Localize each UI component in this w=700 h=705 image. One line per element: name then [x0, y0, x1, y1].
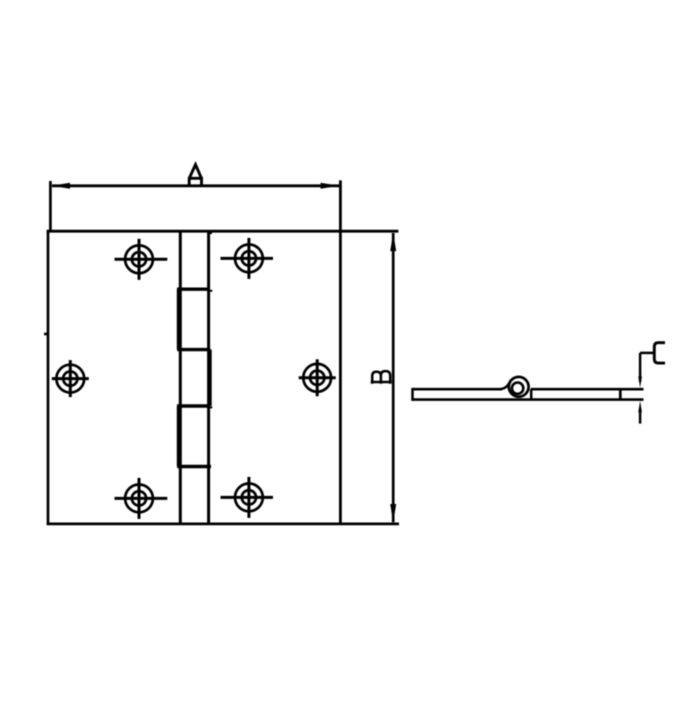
side view leaf bottom edge — [413, 398, 644, 401]
screw hole top-left — [115, 239, 168, 280]
knuckle divider 1 right tick — [208, 290, 213, 292]
hinge leaf outline top edge + B top extension — [47, 230, 399, 233]
hinge pin strip left line — [179, 231, 182, 524]
dimension A arrow right — [321, 183, 339, 189]
knuckle divider 3 — [177, 404, 209, 407]
side view fillet into knuckle — [501, 380, 511, 389]
dimension A line — [52, 184, 339, 187]
hinge leaf outline left edge — [47, 231, 50, 524]
hinge leaf outline right edge + B extension above — [339, 180, 342, 524]
side view knuckle right seam — [530, 389, 533, 399]
dimension C lower arrow — [638, 401, 642, 413]
label B (rotated) — [371, 371, 392, 384]
dimension B line — [392, 233, 395, 522]
side view leaf top edge right part — [531, 388, 644, 391]
knuckle top tick — [209, 232, 212, 234]
knuckle box 4 thick left edge — [177, 406, 180, 467]
label A — [188, 165, 203, 186]
side view leaf top edge left part — [413, 388, 503, 391]
left edge tick — [44, 333, 49, 336]
label C — [654, 343, 665, 363]
knuckle divider 1 — [177, 288, 209, 291]
dimension C upper line — [639, 353, 642, 382]
dimension C leader — [640, 352, 653, 355]
knuckle divider 2 — [177, 348, 210, 351]
side view left end cap — [411, 388, 414, 401]
dimension B arrow bottom — [390, 504, 396, 522]
side view weld tick — [619, 389, 622, 399]
knuckle 3 thick right edge — [209, 350, 212, 406]
dimension A extension line left — [49, 181, 52, 231]
screw hole mid-right — [299, 359, 336, 396]
screw hole bottom-left — [115, 478, 168, 519]
hinge pin strip right line — [207, 231, 210, 524]
dimension C lower line — [639, 409, 642, 424]
screw hole top-right — [221, 238, 274, 279]
dimension B arrow top — [390, 233, 396, 251]
dimension C upper arrow — [638, 376, 642, 388]
screw hole mid-left — [52, 360, 89, 397]
hinge leaf outline bottom edge + B bottom extension — [47, 523, 399, 526]
knuckle divider 3 right tick — [208, 406, 212, 408]
knuckle box 2 thick left edge — [177, 289, 180, 349]
dimension A arrow left — [52, 183, 70, 189]
knuckle divider 4 — [177, 465, 211, 468]
side view pin inner circle — [512, 383, 523, 394]
screw hole bottom-right — [221, 477, 274, 518]
side view knuckle outer circle — [509, 377, 529, 397]
